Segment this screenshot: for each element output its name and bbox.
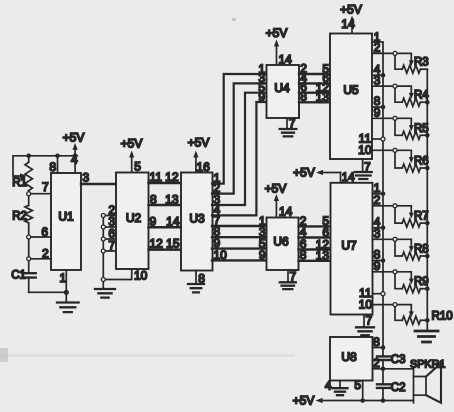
- svg-text:7: 7: [42, 180, 49, 194]
- wire U5 pin 9: [372, 106, 395, 120]
- wire U5 pin 7 stub: [363, 159, 371, 174]
- wire U7 pin 11: [373, 292, 386, 296]
- wire U8 pin 5 stub: [354, 378, 365, 403]
- svg-text:C3: C3: [391, 354, 406, 366]
- svg-text:+5V: +5V: [293, 166, 315, 180]
- svg-text:U7: U7: [341, 239, 357, 253]
- svg-text:8: 8: [373, 335, 380, 349]
- wire U4 pin 6 to U5 pin 12: [299, 80, 330, 94]
- svg-text:4: 4: [71, 153, 78, 167]
- wire U7 pin 8: [373, 248, 386, 263]
- node R1/R2 junction to pin 7: [27, 180, 51, 196]
- wire R2 to pin 6 node: [27, 223, 51, 259]
- wire U4 pin 7 stub: [287, 117, 296, 131]
- svg-text:14: 14: [166, 214, 180, 228]
- svg-text:12: 12: [165, 170, 179, 184]
- wire U3 pin 8 stub: [196, 271, 205, 286]
- wire U7 pin 4: [373, 215, 386, 230]
- svg-text:4: 4: [325, 379, 332, 393]
- svg-text:U6: U6: [273, 235, 289, 249]
- svg-text:9: 9: [374, 106, 381, 120]
- wire U7 pin 9: [373, 259, 396, 273]
- +5V supply U3: [188, 136, 210, 173]
- IC U6: [267, 218, 299, 271]
- +5V supply U1: [63, 131, 85, 156]
- svg-text:+5V: +5V: [265, 182, 287, 196]
- wire U4 pin 14 label: [279, 53, 293, 67]
- svg-text:10: 10: [358, 143, 372, 157]
- wire U5 pin 10: [372, 149, 395, 151]
- IC U7: [331, 183, 373, 315]
- svg-text:U3: U3: [189, 212, 205, 226]
- svg-text:6: 6: [41, 225, 48, 239]
- wire U8 pin 8 to bus: [373, 335, 386, 350]
- ground U3: [188, 284, 204, 292]
- resistor R10: [393, 303, 453, 325]
- wire common bus from U5 pin 1 down to C3: [372, 42, 383, 356]
- svg-text:7: 7: [366, 313, 373, 327]
- svg-text:9: 9: [150, 214, 157, 228]
- wire U8 pin 2 junction: [373, 356, 386, 371]
- svg-text:U4: U4: [274, 81, 290, 95]
- ground U2: [95, 289, 115, 298]
- wire U8 pin 4 stub: [325, 379, 340, 393]
- wire U2 pin 11 to U3 pin 12: [149, 170, 182, 184]
- svg-text:U8: U8: [341, 350, 357, 364]
- svg-text:+5V: +5V: [266, 26, 288, 40]
- wire U1 pin 4 stub: [71, 153, 78, 174]
- svg-text:10: 10: [134, 268, 148, 282]
- wire U6 pin 8 to U7 pin 13: [299, 248, 331, 262]
- +5V supply bottom rail: [293, 393, 414, 407]
- resistor R3: [393, 51, 429, 73]
- wire U5 pin 11: [372, 137, 385, 141]
- wire U1 pin 1 stub: [60, 270, 67, 302]
- wire U5 pin 10 label: [358, 143, 372, 157]
- +5V supply U2: [121, 137, 143, 173]
- svg-text:9: 9: [374, 259, 381, 273]
- wire U7 pin 10: [373, 304, 396, 306]
- svg-text:10: 10: [214, 248, 228, 262]
- svg-text:7: 7: [108, 239, 115, 253]
- svg-text:8: 8: [300, 90, 307, 104]
- wire U4 pin 2 to U5 pin 5: [299, 61, 330, 75]
- svg-text:1: 1: [60, 271, 67, 285]
- wire U6 pin 14 label: [279, 204, 293, 218]
- wire U7 pin 10 label: [359, 297, 373, 311]
- svg-text:5: 5: [354, 378, 361, 392]
- wire U5 pin 1: [374, 30, 381, 44]
- resistor R7: [393, 204, 429, 227]
- wire U7 pin 2: [373, 193, 396, 207]
- svg-text:11: 11: [150, 170, 163, 184]
- svg-text:SPKR1: SPKR1: [410, 358, 445, 370]
- capacitor C3: [377, 354, 406, 369]
- wire U1 pin 8 stub: [49, 156, 57, 174]
- svg-text:13: 13: [316, 249, 330, 263]
- svg-text:5: 5: [134, 160, 141, 174]
- wire U3 pin 4 to U4 pin 9: [212, 90, 267, 217]
- IC U3: [181, 173, 213, 271]
- svg-text:U1: U1: [58, 210, 74, 224]
- capacitor C2: [377, 369, 406, 401]
- wire U4 pin 4 to U5 pin 6: [299, 71, 330, 85]
- svg-text:13: 13: [165, 192, 179, 206]
- +5V supply U6: [265, 182, 287, 218]
- wire U3 pin 8 to U6 pin 3: [212, 225, 267, 239]
- ground U5: [355, 172, 372, 179]
- +5V supply U4: [266, 26, 288, 65]
- resistor R1 (trimmer): [12, 156, 32, 194]
- wire U3 pin 1 to U4 pin 1: [212, 62, 267, 185]
- wire U3 pin 2 to U4 pin 3: [212, 71, 267, 195]
- ground resistor bus: [415, 331, 438, 342]
- wire U3 pin 16 label: [197, 160, 211, 174]
- wire U1 pin 3 to U2: [81, 171, 116, 185]
- wire U6 pin 2 to U7 pin 5: [299, 214, 331, 228]
- ground U7: [356, 327, 374, 335]
- wire U6 pin 4 to U7 pin 6: [299, 225, 331, 239]
- wire U1 top rail: [29, 155, 78, 157]
- svg-text:R2: R2: [12, 211, 27, 223]
- svg-text:R1: R1: [12, 177, 27, 189]
- ground U8: [333, 388, 348, 395]
- wire U2 pin 9 to U3 pin 14: [149, 214, 182, 228]
- IC U5: [330, 34, 372, 160]
- svg-text:C1: C1: [11, 270, 26, 282]
- ground U4: [280, 129, 297, 136]
- wire to speaker top: [383, 368, 414, 370]
- capacitor C1: [11, 261, 36, 292]
- svg-text:2: 2: [374, 41, 381, 55]
- svg-text:2: 2: [42, 247, 49, 261]
- svg-text:14: 14: [279, 204, 293, 218]
- svg-text:10: 10: [359, 297, 373, 311]
- node U1 rail junctions: [26, 154, 77, 159]
- svg-text:2: 2: [374, 193, 381, 207]
- wire U3 pin 10 to U6 pin 9: [212, 248, 267, 262]
- wire U5 pin 4: [372, 62, 385, 77]
- +5V supply U7: [293, 166, 340, 180]
- svg-text:R3: R3: [414, 57, 429, 69]
- svg-text:8: 8: [300, 248, 307, 262]
- wire U5 pin 8: [372, 94, 385, 109]
- wire C1 to U1 pin 1: [29, 290, 69, 295]
- svg-text:9: 9: [258, 90, 265, 104]
- svg-text:15: 15: [166, 237, 180, 251]
- wire U3 pin 9 to U6 pin 5: [212, 236, 267, 250]
- +5V supply U5: [340, 3, 362, 34]
- svg-text:13: 13: [316, 90, 330, 104]
- scan smudge artifact: [0, 18, 295, 362]
- svg-text:9: 9: [259, 248, 266, 262]
- wire U6 pin 6 to U7 pin 12: [299, 237, 331, 251]
- resistor R9: [393, 270, 429, 293]
- wire U2 pin 10 to ground line: [101, 268, 147, 282]
- wire U2 pins 2,3,6,7 to ground line: [101, 203, 116, 289]
- svg-text:R10: R10: [432, 311, 453, 323]
- wire U4 pin 8 to U5 pin 13: [299, 90, 330, 104]
- wire U2 pin 5 label: [134, 160, 141, 174]
- resistor R4: [393, 84, 429, 106]
- ground U6: [280, 282, 296, 289]
- svg-text:+5V: +5V: [121, 137, 143, 151]
- wire U3 pin 3 to U4 pin 5: [212, 81, 267, 207]
- IC U4: [267, 65, 300, 118]
- wire U5 pin 11 label: [359, 132, 372, 146]
- IC U1: [51, 173, 81, 270]
- svg-text:3: 3: [374, 73, 381, 87]
- wire U5 pin 2: [372, 41, 395, 55]
- wire U7 pin 1: [373, 181, 386, 196]
- svg-text:2: 2: [373, 356, 380, 370]
- svg-text:C2: C2: [391, 382, 406, 394]
- node pin 2 junction: [27, 247, 51, 261]
- svg-text:U2: U2: [126, 211, 142, 225]
- svg-text:12: 12: [150, 237, 164, 251]
- svg-text:3: 3: [374, 227, 381, 241]
- resistor R2: [12, 196, 32, 223]
- wire U2 pin 12 to U3 pin 15: [149, 237, 182, 251]
- svg-text:3: 3: [83, 171, 90, 185]
- wire U7 pin 14 stub: [341, 172, 356, 184]
- resistor R5: [393, 116, 429, 139]
- svg-text:+5V: +5V: [340, 3, 362, 17]
- wire U7 pin 11 label: [359, 286, 372, 300]
- wire resistor common bus to ground: [425, 69, 430, 331]
- svg-text:U5: U5: [343, 83, 359, 97]
- svg-text:+5V: +5V: [63, 131, 85, 145]
- wire U2 pin 8 to U3 pin 13: [149, 192, 182, 206]
- IC U8: [330, 337, 373, 381]
- wire U7 pin 7 stub: [364, 313, 373, 327]
- wire U5 pin 14 label: [341, 17, 355, 31]
- svg-text:+5V: +5V: [188, 136, 210, 150]
- ground U1: [57, 303, 79, 313]
- svg-text:14: 14: [341, 17, 355, 31]
- wire U3 pin 7 to U6 pin 1: [212, 213, 267, 227]
- svg-text:+5V: +5V: [293, 393, 315, 407]
- resistor R8: [393, 237, 429, 260]
- speaker SPKR1: [410, 358, 445, 403]
- svg-text:8: 8: [150, 192, 157, 206]
- resistor R6: [393, 148, 429, 172]
- wire U7 pin 3: [373, 227, 396, 241]
- IC U2: [116, 173, 149, 270]
- wire U6 pin 7 stub: [288, 270, 297, 284]
- wire U5 pin 3: [372, 73, 395, 87]
